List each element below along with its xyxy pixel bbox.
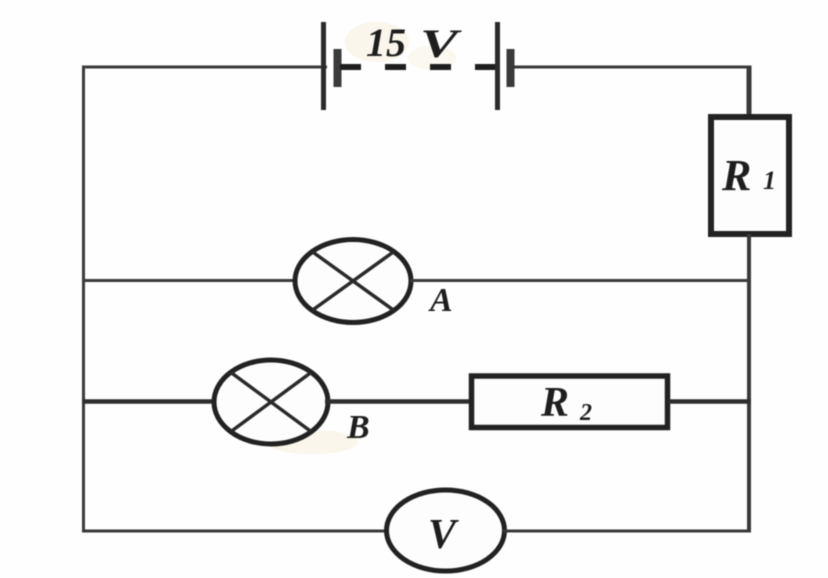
svg-text:B: B bbox=[346, 409, 370, 446]
svg-text:V: V bbox=[428, 512, 459, 558]
svg-text:15: 15 bbox=[366, 20, 406, 65]
wire right vertical upper bbox=[747, 66, 752, 119]
wire top-right segment bbox=[512, 66, 751, 69]
lamp B bbox=[214, 360, 328, 444]
wire lamp B branch right bbox=[668, 399, 751, 404]
voltmeter V bbox=[387, 490, 505, 571]
lamp A bbox=[295, 240, 411, 323]
wire right vertical lower bbox=[747, 234, 751, 532]
svg-text:R: R bbox=[540, 380, 569, 426]
battery cell 1 long plate bbox=[321, 22, 326, 110]
svg-text:R: R bbox=[721, 151, 751, 200]
wire lamp B branch left bbox=[82, 399, 218, 404]
battery dashed link bbox=[340, 64, 497, 70]
svg-text:A: A bbox=[428, 282, 453, 319]
wire bottom left bbox=[82, 530, 390, 533]
wire lamp A branch right bbox=[410, 279, 751, 282]
battery cell 2 short plate bbox=[507, 49, 515, 87]
resistor R2 bbox=[472, 376, 668, 428]
battery cell 1 short plate bbox=[334, 49, 342, 87]
svg-text:V: V bbox=[420, 21, 463, 66]
svg-text:2: 2 bbox=[579, 400, 592, 426]
battery cell 2 long plate bbox=[495, 22, 500, 110]
resistor R1 bbox=[711, 117, 789, 234]
wire lamp B branch middle bbox=[325, 399, 473, 404]
wire top-left segment bbox=[82, 66, 327, 69]
wire bottom right bbox=[503, 530, 751, 533]
wire left vertical bbox=[82, 66, 85, 533]
svg-text:1: 1 bbox=[763, 166, 776, 195]
wire lamp A branch left bbox=[82, 279, 298, 282]
